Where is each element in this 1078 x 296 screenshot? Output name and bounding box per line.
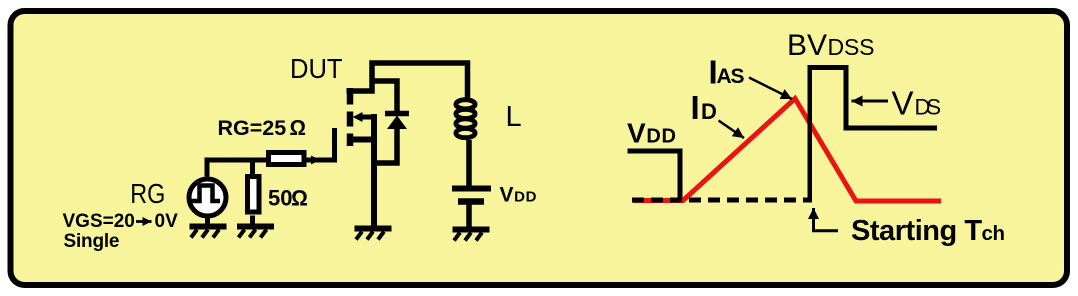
svg-text:Starting Tch: Starting Tch xyxy=(851,215,1005,247)
svg-text:I: I xyxy=(691,89,700,126)
svg-text:RG: RG xyxy=(130,179,165,209)
svg-text:VGS=20: VGS=20 xyxy=(63,211,135,232)
svg-text:BV: BV xyxy=(787,29,827,62)
svg-text:Single: Single xyxy=(64,231,120,252)
svg-text:Ω: Ω xyxy=(290,116,307,140)
svg-text:L: L xyxy=(506,101,522,133)
svg-text:AS: AS xyxy=(717,65,745,88)
svg-text:0V: 0V xyxy=(155,211,179,232)
svg-text:V: V xyxy=(892,85,914,122)
svg-text:DUT: DUT xyxy=(290,53,343,84)
svg-text:50: 50 xyxy=(268,186,292,211)
svg-text:D: D xyxy=(701,99,717,124)
svg-text:DSS: DSS xyxy=(828,34,875,60)
svg-text:DS: DS xyxy=(915,95,942,120)
svg-text:Ω: Ω xyxy=(291,186,308,211)
svg-text:RG=25: RG=25 xyxy=(218,116,287,140)
